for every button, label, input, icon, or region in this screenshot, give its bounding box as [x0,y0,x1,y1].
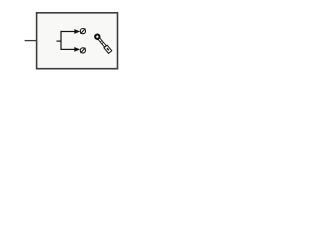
symbol outline box U1 [37,13,118,69]
key bow ring [94,34,100,40]
wire left lead [25,40,37,42]
key bit [104,45,112,53]
arrowhead bottom [74,47,80,52]
crossed circle top [80,29,85,34]
key symbol [94,34,112,54]
crossed circle bottom [80,48,85,53]
key bit slot [106,48,109,51]
wire vertical bus [60,31,62,50]
wire top branch [61,31,76,33]
wire input stub [57,40,62,42]
key shaft tick 1 [100,40,102,42]
key shaft [98,38,106,47]
key shaft tick 2 [102,42,104,44]
wire bottom branch [61,48,76,50]
background [0,0,150,82]
arrowhead top [74,29,80,34]
